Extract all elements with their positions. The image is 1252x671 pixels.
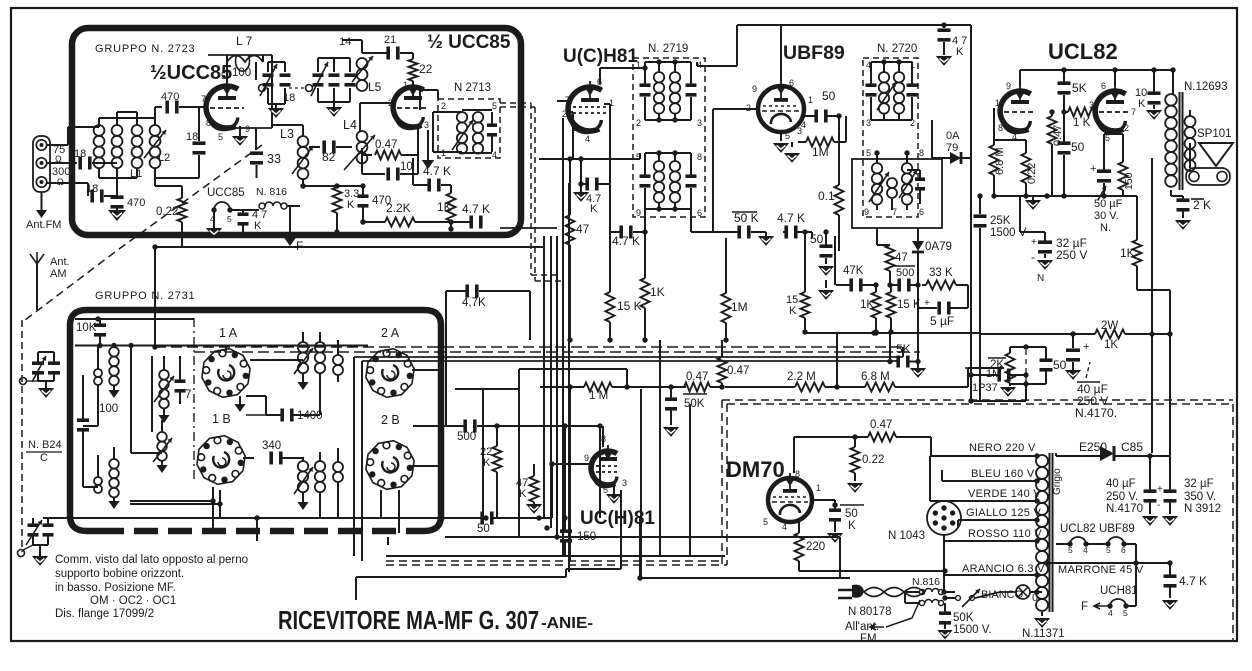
svg-text:470: 470 (161, 91, 179, 103)
switch shaft dashed link 1A-1B (193, 318, 195, 480)
ground 5K cap (917, 362, 919, 369)
capacitor 50 near pot (1040, 358, 1053, 362)
svg-text:N. 2720: N. 2720 (877, 43, 917, 55)
svg-text:1K: 1K (650, 285, 665, 299)
capacitor 32uF 250V electrolytic (1038, 240, 1052, 244)
svg-text:+: + (1090, 163, 1096, 175)
svg-text:50: 50 (845, 508, 858, 520)
svg-text:500: 500 (457, 431, 476, 443)
svg-text:5: 5 (227, 214, 232, 224)
svg-text:0A: 0A (946, 130, 960, 142)
svg-text:5K: 5K (1072, 81, 1087, 95)
trimmer capacitor pair B (317, 88, 319, 102)
tube U7 DM70 magic eye (768, 478, 812, 522)
capacitor 470 under L1 (116, 196, 118, 197)
2B bottom drops (380, 490, 382, 518)
capacitor inside N2713 (487, 123, 497, 127)
svg-text:10: 10 (400, 161, 413, 173)
twisted mains cord (864, 588, 924, 597)
svg-text:14: 14 (339, 36, 351, 48)
svg-text:7: 7 (201, 94, 206, 104)
coil L1 winding a (94, 125, 105, 136)
svg-text:4.7 K: 4.7 K (1179, 574, 1207, 588)
capacitor 18 lower antenna (47, 182, 89, 184)
wire UBF89 grid left (713, 108, 758, 110)
svg-text:DM70: DM70 (726, 457, 785, 482)
svg-text:K: K (789, 305, 797, 317)
svg-text:32 µF: 32 µF (1184, 478, 1214, 490)
tube U5b UCL82 pentode (1095, 85, 1131, 133)
capacitor 33 vertical (255, 128, 257, 150)
svg-text:N.11371: N.11371 (1022, 628, 1065, 640)
svg-text:0.1: 0.1 (818, 189, 835, 203)
capacitor 50K DM70 with bar (840, 504, 864, 506)
svg-text:0.47: 0.47 (870, 419, 892, 431)
small coupling coil A (333, 355, 343, 365)
N2719 upper right capacitor (686, 83, 697, 87)
dashed diagonal ganged tuning link (25, 145, 262, 320)
svg-text:0.47: 0.47 (727, 365, 749, 377)
capacitor 10K at output (1148, 91, 1161, 95)
cathode ground bus UCL82 (994, 195, 1123, 197)
svg-text:5: 5 (636, 152, 641, 162)
svg-text:50: 50 (1053, 358, 1067, 372)
resistor 47K vertical mixer (530, 476, 539, 502)
capacitor 4.7 K below UCH81 (585, 178, 589, 191)
svg-text:1K: 1K (860, 299, 874, 311)
ground 50K DM70 (827, 533, 843, 543)
svg-text:1P37: 1P37 (972, 382, 998, 394)
svg-text:220: 220 (806, 541, 825, 553)
capacitor 470 to tube 1 grid (155, 106, 162, 108)
svg-text:470: 470 (127, 197, 145, 209)
IF coil pair below 340 (298, 461, 308, 471)
N2720 detector coils (872, 163, 882, 173)
plate wire UBF89 top (780, 26, 782, 81)
svg-text:100: 100 (99, 403, 118, 415)
N2713 secondary coil (473, 112, 483, 122)
svg-text:½UCC85: ½UCC85 (150, 62, 232, 84)
svg-text:3: 3 (622, 478, 627, 488)
svg-text:4.7 K: 4.7 K (612, 234, 640, 248)
left return vertical (130, 346, 132, 454)
svg-text:1K: 1K (437, 200, 452, 214)
svg-text:6: 6 (697, 208, 702, 218)
wire U6 grid (552, 463, 591, 465)
wire bundle below module 2723 (155, 246, 544, 248)
svg-text:N.816: N.816 (912, 576, 940, 588)
tube U6 UCH81 IF amp (591, 445, 620, 487)
capacitor 18 at tube 1 (198, 107, 200, 141)
svg-text:9: 9 (1006, 81, 1011, 91)
bus and bottom wires (43, 517, 482, 519)
resistor 1M AGC horizontal (584, 383, 612, 392)
svg-text:8: 8 (919, 148, 924, 158)
resistor 47 vertical (566, 215, 575, 245)
svg-text:4: 4 (1108, 608, 1113, 618)
svg-text:82: 82 (322, 150, 336, 164)
wire row y=369 (518, 369, 520, 537)
svg-text:1500 V.: 1500 V. (953, 624, 992, 636)
grid wire UCH81 pin7 (557, 100, 568, 102)
svg-text:U(C)H81: U(C)H81 (563, 46, 638, 67)
resistor 15K vertical (606, 292, 615, 322)
svg-text:K: K (590, 203, 598, 215)
resistor 1K right vertical (1133, 240, 1142, 266)
svg-text:2: 2 (441, 101, 446, 111)
ground below UBF89 (780, 133, 782, 141)
coil L5 (357, 58, 368, 69)
pin 2 wire from tube U2 (360, 102, 396, 104)
svg-text:K: K (956, 46, 964, 58)
svg-text:supporto bobine orizzont.: supporto bobine orizzont. (55, 568, 184, 580)
osc coil 2 (157, 432, 167, 442)
svg-text:N 80178: N 80178 (848, 606, 891, 618)
svg-text:3: 3 (697, 118, 702, 128)
svg-text:0.47: 0.47 (375, 139, 397, 151)
svg-text:L 7: L 7 (236, 34, 253, 48)
module box GRUPPO N.2731 (70, 310, 441, 520)
ground AM trimmer (45, 381, 47, 388)
AM coupling coil small upper (94, 369, 102, 377)
wire DM70 cathode to heater bus (799, 570, 945, 572)
svg-text:VERDE 140 V: VERDE 140 V (968, 488, 1041, 500)
svg-text:K: K (1138, 98, 1146, 110)
tube U3 UCH81 mixer (568, 81, 607, 133)
RF coil pair right of 1A (298, 342, 308, 352)
IF feed line y=159 (539, 158, 640, 160)
svg-text:100: 100 (232, 67, 251, 79)
bottom dashed bus pair (386, 560, 722, 562)
svg-text:UCH81: UCH81 (1100, 585, 1138, 597)
AM coupling coil small lower (94, 477, 102, 485)
ground pot (1000, 387, 1016, 397)
transformer bottom ground (1041, 612, 1043, 616)
vertical feeds UC(H)81 stage (564, 426, 566, 530)
svg-text:L3: L3 (280, 127, 294, 141)
svg-text:2 K: 2 K (1193, 198, 1211, 212)
shielded cable dashed pair from N2713 (530, 103, 532, 275)
svg-text:4.7 K: 4.7 K (777, 211, 805, 225)
bus right bends (902, 347, 904, 357)
svg-text:1 K: 1 K (1073, 117, 1091, 129)
svg-text:6.8 M: 6.8 M (994, 147, 1006, 175)
svg-text:50K: 50K (953, 612, 974, 624)
ground below 4.7K (580, 184, 582, 192)
svg-text:4: 4 (585, 134, 590, 144)
svg-text:2 A: 2 A (381, 326, 400, 340)
svg-text:N: N (1037, 273, 1044, 284)
svg-text:8: 8 (795, 469, 800, 479)
svg-text:2.2 M: 2.2 M (787, 371, 816, 383)
svg-text:UC(H)81: UC(H)81 (580, 508, 655, 529)
ground heater (213, 210, 215, 228)
svg-text:L4: L4 (343, 118, 357, 132)
svg-text:18: 18 (186, 131, 198, 143)
svg-text:1: 1 (995, 98, 1000, 108)
power transformer primary winding (1036, 455, 1048, 467)
capacitor 2K with bar (1177, 198, 1190, 202)
svg-text:K: K (254, 220, 262, 232)
svg-text:0A79: 0A79 (925, 241, 952, 253)
dial lamp (1016, 585, 1030, 599)
svg-text:2: 2 (636, 118, 641, 128)
svg-text:50K: 50K (684, 398, 705, 410)
svg-text:4: 4 (782, 522, 787, 532)
svg-text:7: 7 (185, 389, 191, 401)
ground S1A (239, 396, 241, 404)
AM antenna coil 2 (109, 459, 119, 469)
svg-text:1K: 1K (1104, 339, 1118, 351)
svg-text:6: 6 (789, 78, 794, 88)
wire L7 to decoupling (271, 55, 273, 128)
ground below tube U1 cathode (239, 126, 241, 136)
capacitor 10K input (94, 323, 106, 327)
capacitor 82 (309, 146, 320, 148)
resistor 1K vertical det (872, 292, 881, 318)
svg-text:N 1043: N 1043 (888, 530, 925, 542)
dashed link to trimmer B (289, 87, 306, 89)
svg-text:N 2713: N 2713 (454, 82, 491, 94)
svg-text:33 K: 33 K (929, 267, 953, 279)
svg-text:FM: FM (860, 633, 877, 645)
svg-text:GRUPPO N. 2731: GRUPPO N. 2731 (95, 290, 195, 302)
svg-text:250 V.: 250 V. (1106, 491, 1138, 503)
capacitor 50uF 30V electrolytic (1097, 169, 1111, 173)
ground 0.22 (847, 483, 863, 493)
svg-text:33: 33 (267, 152, 281, 166)
AM antenna coil 1 (109, 347, 119, 357)
ground 47K mixer (526, 504, 542, 514)
resistor 0.47 vertical (1048, 116, 1057, 144)
svg-text:N. 2719: N. 2719 (648, 43, 688, 55)
wires around N2713 (437, 90, 439, 99)
tube U2 triode 1/2UCC85 b (393, 81, 429, 129)
capacitor 4.7K heater filter (1164, 574, 1177, 578)
svg-text:25K: 25K (990, 215, 1011, 227)
wire U6 plate top (602, 426, 604, 447)
dashed antenna feed vertical (21, 320, 23, 552)
coil L1 winding b (112, 125, 123, 136)
tube U5a UCL82 triode (1000, 85, 1036, 133)
svg-text:0.22: 0.22 (862, 454, 884, 466)
svg-text:+: + (1157, 484, 1163, 495)
svg-text:N.4170.: N.4170. (1075, 406, 1117, 420)
svg-text:SP101: SP101 (1197, 128, 1232, 140)
tube U1 triode 1/2UCC85 a (206, 80, 244, 130)
ground mains cap (937, 630, 952, 639)
svg-text:Ant.: Ant. (50, 256, 70, 268)
svg-text:18: 18 (86, 183, 98, 195)
svg-text:ARANCIO 6.3 V: ARANCIO 6.3 V (962, 563, 1045, 575)
capacitor 1400 (280, 409, 284, 422)
AGC bus dashed line 1 (155, 346, 903, 348)
capacitor 100 pad (77, 418, 89, 422)
terminal circle AM ant (20, 378, 27, 385)
ground bottom left cluster (39, 545, 41, 556)
AGC bus dashed line 2 (194, 351, 920, 353)
svg-text:50: 50 (1071, 140, 1085, 154)
ground 4.7K heater (1162, 600, 1178, 610)
svg-text:6: 6 (919, 207, 924, 217)
svg-text:1: 1 (816, 483, 821, 493)
resistor 0.47 vertical to bus (718, 357, 727, 383)
N2713 primary coil (457, 112, 467, 122)
resistor 22 vertical (409, 59, 418, 81)
resistor 47 vertical det (886, 245, 895, 271)
vertical drops mid (482, 389, 484, 518)
wire UCH81 pin1 down (609, 104, 611, 184)
resistor 6.8M vertical (990, 145, 999, 175)
speaker voice coil (1186, 168, 1230, 185)
svg-text:21: 21 (384, 34, 396, 46)
coil L2 winding a (132, 125, 143, 136)
svg-text:GRUPPO N. 2723: GRUPPO N. 2723 (95, 43, 195, 55)
tap wires (930, 455, 1036, 457)
resistor 1K horizontal UCL82 (1068, 108, 1094, 117)
svg-text:50 K: 50 K (734, 211, 759, 225)
bus solid line 2 (362, 360, 898, 362)
svg-text:K: K (848, 520, 856, 532)
resistor 0.1 vertical (835, 185, 844, 215)
svg-text:7: 7 (1131, 107, 1136, 117)
resistor 220 DM70 cathode (795, 533, 804, 561)
svg-text:3: 3 (424, 120, 429, 130)
svg-text:-: - (1031, 250, 1035, 264)
svg-text:N. B24: N. B24 (28, 439, 62, 451)
svg-text:N.4170: N.4170 (1106, 503, 1143, 515)
capacitor 50 UCL82 (1058, 141, 1071, 145)
capacitor 7 (175, 379, 186, 383)
capacitor 150 (560, 529, 572, 533)
svg-text:+: + (1031, 237, 1037, 248)
svg-text:47: 47 (895, 252, 908, 264)
ground under 470 (116, 208, 118, 210)
capacitor 40uF 250V N4170 electrolytic (1066, 348, 1080, 352)
svg-text:1: 1 (403, 80, 408, 90)
resistor 15 K left det (801, 292, 810, 318)
svg-text:2W: 2W (1101, 320, 1118, 332)
svg-text:47: 47 (576, 222, 590, 236)
antenna input connector 75/300 ohm (33, 136, 50, 192)
svg-text:10K: 10K (76, 322, 97, 334)
plate supply wires UCL82 (1019, 70, 1021, 86)
svg-text:8: 8 (206, 118, 211, 128)
power section dashed box right edge (1232, 404, 1234, 640)
svg-text:8: 8 (998, 123, 1003, 133)
svg-text:5: 5 (603, 485, 608, 495)
svg-text:F: F (1081, 601, 1088, 613)
svg-text:N.: N. (1100, 222, 1111, 234)
svg-text:18: 18 (283, 92, 295, 104)
trimmer capacitor pair A (267, 88, 269, 104)
svg-text:+: + (1083, 341, 1089, 353)
resistor 0.22 vertical DM70 (851, 447, 860, 473)
N2719 upper left capacitor (640, 83, 651, 87)
svg-text:1: 1 (636, 60, 641, 70)
svg-text:5: 5 (221, 71, 226, 81)
svg-text:1M: 1M (731, 300, 748, 314)
ground arrow below tube U2 (427, 130, 429, 160)
svg-text:-: - (1157, 500, 1160, 511)
svg-text:2: 2 (562, 109, 567, 119)
ground under trimmer A (275, 104, 277, 108)
svg-text:1K: 1K (1120, 246, 1135, 260)
capacitor 50 in line (480, 512, 484, 525)
F arrow heater (1094, 603, 1108, 609)
svg-text:OM · OC2 · OC1: OM · OC2 · OC1 (90, 595, 176, 607)
svg-text:9: 9 (864, 207, 869, 217)
plate wire UCH81 to N2719 (599, 68, 601, 84)
svg-text:1 M: 1 M (589, 390, 608, 402)
svg-text:15 K: 15 K (617, 299, 642, 313)
svg-text:50: 50 (810, 232, 824, 246)
svg-text:in basso. Posizione MF.: in basso. Posizione MF. (55, 582, 176, 594)
det bottom bus (805, 332, 980, 334)
svg-text:470: 470 (372, 195, 391, 207)
svg-text:UBF89: UBF89 (783, 42, 845, 64)
junction dots (152, 344, 157, 349)
svg-text:RICEVITORE MA-MF G. 307: RICEVITORE MA-MF G. 307 (278, 605, 539, 635)
svg-text:22: 22 (419, 62, 433, 76)
resistor 1M at UBF89 (806, 138, 834, 147)
svg-text:1 B: 1 B (212, 412, 231, 426)
svg-text:K: K (483, 457, 491, 469)
svg-text:9: 9 (636, 208, 641, 218)
svg-text:BLEU 160 V: BLEU 160 V (971, 468, 1035, 480)
svg-text:N. 816: N. 816 (256, 186, 287, 198)
AF return staircase wires (386, 555, 725, 557)
resistor 22K vertical (493, 446, 502, 472)
svg-text:C: C (40, 452, 48, 464)
resistor 3.3K vertical (333, 187, 342, 213)
resistor 1M vertical det (722, 293, 731, 323)
svg-text:0.47: 0.47 (686, 371, 708, 383)
svg-text:1M: 1M (812, 145, 829, 159)
N2720 upper coils (879, 72, 889, 82)
bottom left trimmer caps (28, 523, 39, 527)
F terminal arrow (289, 206, 291, 238)
svg-text:5: 5 (492, 101, 497, 111)
AF line y=387 (540, 386, 570, 388)
svg-text:5: 5 (763, 517, 768, 527)
svg-text:N 3912: N 3912 (1184, 503, 1221, 515)
capacitor 2K with bar near pot (988, 357, 1006, 359)
ground 2K (1175, 220, 1191, 230)
svg-text:Ant.FM: Ant.FM (26, 219, 61, 231)
capacitor 50K AF with bar (683, 393, 707, 395)
capacitor 100 across L7 (236, 55, 250, 71)
svg-text:5 µF: 5 µF (930, 314, 954, 328)
osc left vertical (151, 356, 153, 432)
small coupling coil B (333, 462, 343, 472)
svg-text:1: 1 (808, 95, 813, 105)
capacitor 47K top right (943, 25, 945, 28)
capacitor 470 vertical small (358, 194, 369, 198)
resistor 15K vertical det (887, 292, 896, 318)
svg-text:-ANIE-: -ANIE- (541, 615, 593, 632)
svg-text:½ UCC85: ½ UCC85 (427, 32, 511, 53)
capacitor 50K 1500V mains (939, 611, 951, 615)
svg-text:150: 150 (1123, 172, 1135, 190)
ground 50K AF (663, 427, 679, 437)
svg-text:5: 5 (218, 132, 223, 142)
svg-text:Comm. visto dal lato opposto a: Comm. visto dal lato opposto al perno (55, 554, 248, 566)
volume potentiometer 1M 1P37 (1006, 353, 1015, 383)
coil L2 winding b tuned (150, 125, 161, 136)
resistor 1K vertical (447, 193, 456, 221)
svg-text:340: 340 (262, 440, 281, 452)
